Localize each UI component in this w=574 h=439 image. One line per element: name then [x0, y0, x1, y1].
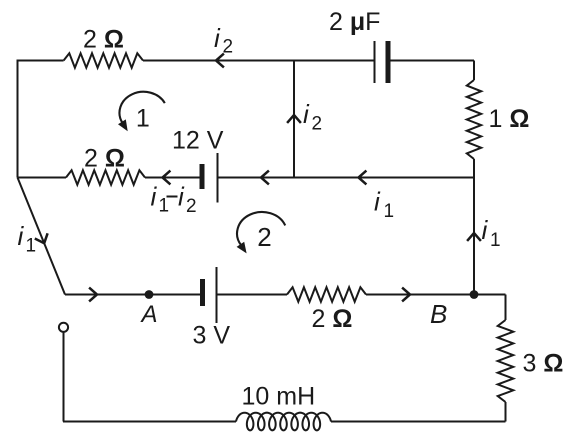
svg-text:2: 2 — [223, 37, 234, 58]
wire diagonal — [18, 178, 66, 295]
terminal circle — [59, 323, 68, 332]
wire — [366, 294, 506, 296]
wire — [65, 294, 200, 296]
wire — [331, 421, 506, 423]
svg-text:3 V: 3 V — [193, 322, 231, 350]
current arrow i1 diagonal — [35, 233, 48, 243]
svg-text:2 Ω: 2 Ω — [312, 305, 353, 333]
wire — [473, 178, 475, 295]
current arrow row3 right — [402, 288, 410, 302]
wire — [218, 294, 288, 296]
svg-text:1: 1 — [26, 236, 37, 257]
node B — [470, 290, 479, 299]
svg-text:3 Ω: 3 Ω — [523, 350, 564, 378]
wire — [473, 159, 475, 178]
resistor R1 2ohm — [64, 53, 143, 67]
wire — [18, 177, 67, 179]
svg-text:2: 2 — [186, 196, 197, 217]
svg-text:i: i — [178, 182, 185, 212]
svg-text:1: 1 — [490, 230, 501, 251]
current arrow i1 up — [467, 233, 481, 241]
svg-text:2: 2 — [312, 114, 323, 135]
loop arrow 1 — [119, 92, 164, 123]
svg-text:2 μF: 2 μF — [329, 8, 380, 36]
node A — [145, 290, 154, 299]
wire — [473, 61, 475, 81]
svg-text:i: i — [151, 182, 158, 212]
wire — [219, 177, 475, 179]
svg-text:1: 1 — [136, 105, 150, 133]
loop arrow 2 — [237, 212, 285, 246]
resistor R5 3ohm — [498, 320, 514, 402]
svg-text:10 mH: 10 mH — [242, 383, 316, 411]
battery 12V — [200, 164, 205, 189]
wire — [145, 177, 200, 179]
wire — [63, 421, 236, 423]
wire — [17, 60, 19, 178]
capacitor C1 2uF — [374, 41, 376, 83]
svg-text:1 Ω: 1 Ω — [489, 105, 530, 133]
current arrow i1-i2 — [163, 171, 171, 185]
battery 3V — [200, 279, 205, 306]
svg-text:i: i — [482, 215, 489, 245]
svg-text:i: i — [214, 23, 221, 53]
svg-text:2 Ω: 2 Ω — [83, 26, 124, 54]
inductor L1 10mH — [236, 413, 331, 431]
current arrow mid — [261, 171, 269, 185]
resistor R2 2ohm — [66, 170, 145, 184]
wire terminal stem — [63, 332, 65, 421]
wire — [18, 60, 64, 62]
wire — [505, 295, 507, 321]
svg-text:2: 2 — [257, 222, 271, 252]
wire i2 branch — [293, 61, 295, 178]
wire — [390, 60, 474, 62]
resistor R4 2ohm — [287, 287, 366, 301]
wire — [143, 60, 374, 62]
current arrow row3 left — [89, 288, 97, 302]
svg-text:i: i — [374, 187, 381, 217]
svg-text:1: 1 — [159, 196, 170, 217]
current arrow i1 row2 — [359, 171, 367, 185]
svg-text:2 Ω: 2 Ω — [84, 145, 125, 173]
current arrow i2 top — [216, 54, 224, 68]
svg-text:12 V: 12 V — [172, 127, 224, 155]
wire — [505, 402, 507, 422]
svg-text:B: B — [430, 299, 447, 329]
svg-text:i: i — [18, 221, 25, 251]
resistor R3 1ohm — [467, 80, 481, 159]
svg-text:i: i — [303, 99, 310, 129]
svg-text:A: A — [140, 301, 158, 328]
svg-text:1: 1 — [384, 201, 395, 222]
current arrow i2 up — [287, 115, 301, 123]
